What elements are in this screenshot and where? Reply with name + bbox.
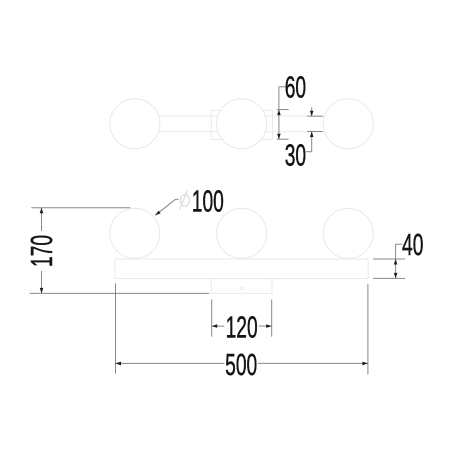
sphere right (top view) <box>323 99 373 149</box>
mounting box (front view) <box>211 279 272 294</box>
svg-text:170: 170 <box>26 235 60 267</box>
dimension 40: arrow down <box>394 273 398 279</box>
sphere left (front view) <box>110 208 160 258</box>
label dia 100: leader line <box>155 199 178 215</box>
svg-text:100: 100 <box>192 185 224 219</box>
dimension 500: dimension line <box>116 362 368 364</box>
dimension 120: arrow right <box>266 324 272 328</box>
dimension 40: dimension line with leader <box>396 244 403 278</box>
sphere right (front view) <box>323 208 373 258</box>
dimension 500: arrow right <box>362 362 368 366</box>
dimension 120: dimension line <box>212 325 272 327</box>
label dia 100: leader arrow <box>155 211 161 216</box>
sphere middle (top view) <box>217 99 267 149</box>
sphere middle (front view) <box>217 208 267 258</box>
dimension 60: arrow down <box>277 134 281 140</box>
dimension 120: arrow left <box>212 324 218 328</box>
dimension 170: extension lines <box>30 208 210 294</box>
dimension 40: arrow up <box>394 259 398 265</box>
base bar (front view) <box>115 259 368 279</box>
svg-text:500: 500 <box>225 349 257 383</box>
svg-text:40: 40 <box>402 228 423 262</box>
dimension 30: arrow tails and leader <box>306 107 312 151</box>
svg-text:120: 120 <box>226 311 258 345</box>
dimension 60: dimension line with leader <box>279 87 286 139</box>
dimension 40: extension lines <box>373 259 405 278</box>
dimension 60: arrow up <box>277 110 281 116</box>
dimension 30: arrow up (below bar) <box>310 132 314 138</box>
svg-text:60: 60 <box>285 71 306 105</box>
dimension 170: arrow up <box>40 208 44 214</box>
screw hole (front view) <box>240 287 243 290</box>
mounting plate (top view) <box>211 110 272 139</box>
dimension 30: arrow down (above bar) <box>310 111 314 117</box>
svg-text:30: 30 <box>285 139 306 173</box>
sphere left (top view) <box>110 99 160 149</box>
dimension 30: extension lines <box>307 116 322 131</box>
connecting bar (top view) <box>135 116 348 132</box>
label dia 100: phi symbol <box>180 190 190 209</box>
dimension 500: extension lines <box>116 283 368 374</box>
dimension 120: extension lines <box>212 299 272 336</box>
dimension 170: arrow down <box>40 288 44 294</box>
dimension 500: arrow left <box>116 362 122 366</box>
dimension 60: extension lines <box>277 110 289 140</box>
dimension 170: dimension line <box>41 208 43 294</box>
